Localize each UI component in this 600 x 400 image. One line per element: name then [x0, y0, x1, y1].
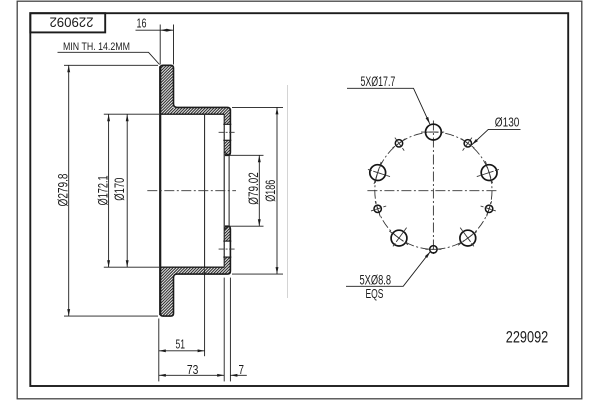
small hole bottom (dia 8.8) — [430, 246, 437, 253]
tangential tick small hole 126deg — [393, 139, 406, 148]
bolt hole lower-left — [391, 230, 407, 246]
hat inner edge lower — [160, 266, 224, 268]
tangential tick small hole 198deg — [375, 201, 380, 216]
svg-text:Ø279.8: Ø279.8 — [55, 174, 70, 207]
bolt hole lower-right — [460, 230, 476, 246]
small hole 54deg — [464, 140, 471, 147]
svg-text:Ø172.1: Ø172.1 — [96, 175, 111, 205]
svg-text:229092: 229092 — [50, 14, 94, 29]
bolt hole upper-left — [370, 165, 386, 181]
drum depth step edge — [204, 115, 206, 267]
hatch: disc ring lower section — [161, 268, 174, 316]
svg-text:16: 16 — [137, 16, 147, 31]
tangential tick bottom small hole — [425, 248, 441, 250]
svg-text:7: 7 — [239, 362, 245, 377]
bolt hole top (dia 17.7) — [426, 124, 442, 140]
svg-text:51: 51 — [175, 336, 185, 351]
dimension 16 top — [136, 25, 174, 65]
hatch: hat drum + flange lower section — [173, 227, 231, 274]
tick small hole 198deg — [369, 206, 386, 212]
scan artifact faint vertical line — [287, 85, 289, 298]
bolt hole edge lower top — [223, 240, 231, 242]
dimension dia 170 — [126, 114, 128, 267]
bore chamfer lower — [224, 226, 228, 229]
front view horizontal centreline — [367, 190, 497, 192]
leader 5X dia 8.8 EQS — [346, 252, 430, 287]
svg-text:Ø186: Ø186 — [263, 180, 278, 202]
tangential tick lower-left bolt hole — [389, 231, 408, 245]
small hole 126deg — [395, 140, 402, 147]
flange outer face through bore — [228, 155, 230, 226]
svg-text:MIN TH. 14.2MM: MIN TH. 14.2MM — [63, 41, 130, 53]
tangential tick upper-left bolt hole — [374, 161, 381, 184]
disc outline lower half — [160, 226, 230, 316]
tick upper-right bolt hole — [477, 169, 502, 177]
tick lower-right bolt hole — [460, 228, 475, 249]
bolt hole upper-right — [481, 165, 497, 181]
tangential tick upper-right bolt hole — [485, 161, 492, 184]
hat inner edge upper (dia 170/172.1) — [160, 113, 224, 115]
bolt hole edge lower bottom — [223, 256, 231, 258]
small hole 342deg — [485, 205, 492, 212]
tick small hole 342deg — [481, 206, 498, 212]
title block box — [30, 13, 105, 32]
svg-text:73: 73 — [187, 362, 199, 377]
bolt hole edge upper bottom — [223, 139, 231, 141]
bolt hole centre mark lower — [219, 248, 236, 250]
tick upper-left bolt hole — [365, 169, 390, 177]
tangential tick top bolt hole — [421, 131, 446, 133]
svg-text:Ø170: Ø170 — [112, 178, 127, 201]
svg-text:Ø79.02: Ø79.02 — [246, 172, 261, 205]
svg-text:EQS: EQS — [366, 286, 384, 301]
svg-text:Ø130: Ø130 — [495, 115, 520, 130]
hatch: hat drum + flange upper section — [173, 108, 231, 155]
leader MIN TH. 14.2MM — [58, 52, 160, 64]
dimension 73 bottom — [159, 278, 224, 382]
tick lower-left bolt hole — [391, 228, 406, 249]
hatch: disc ring upper section — [161, 66, 174, 114]
flange inner face — [223, 114, 225, 267]
svg-text:229092: 229092 — [506, 328, 549, 347]
bolt hole edge upper top — [223, 123, 231, 125]
leader 5X dia 17.7 — [347, 88, 430, 124]
dimension 51 bottom — [159, 269, 205, 381]
front view vertical centreline — [432, 121, 434, 257]
bore chamfer upper — [224, 152, 228, 155]
dimension 7 bottom — [230, 278, 246, 382]
tangential tick small hole 54deg — [461, 139, 474, 148]
dimension dia 279.8 — [64, 65, 158, 316]
dimension dia 172.1 — [104, 114, 159, 267]
dimension dia 186 — [232, 107, 283, 274]
svg-text:5XØ17.7: 5XØ17.7 — [361, 74, 396, 89]
tangential tick lower-right bolt hole — [458, 231, 477, 245]
small hole 198deg — [374, 205, 381, 212]
tangential tick small hole 342deg — [487, 201, 492, 216]
section axis centreline — [147, 190, 236, 192]
tick small hole 54deg — [463, 136, 474, 151]
dimension dia 79.02 — [229, 155, 263, 226]
disc ring left face — [159, 66, 161, 315]
tick small hole 126deg — [394, 136, 405, 151]
leader dia 130 — [472, 129, 521, 144]
bolt circle dia 130 — [375, 132, 492, 249]
bolt hole centre mark upper — [219, 131, 236, 133]
disc outline upper half — [160, 65, 230, 155]
